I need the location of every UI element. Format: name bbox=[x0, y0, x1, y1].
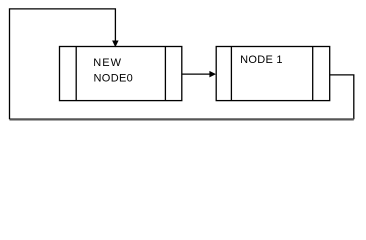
arrowhead into top of NEW NODE0 bbox=[112, 41, 119, 48]
divider: NODE 1 left cell bbox=[230, 47, 232, 101]
node box NODE 1 (outer rect) bbox=[216, 47, 330, 101]
divider: NEW NODE0 right cell bbox=[164, 47, 166, 101]
arrowhead into NODE 1 bbox=[209, 71, 216, 78]
svg-text:NEW: NEW bbox=[93, 57, 122, 69]
svg-text:NODE0: NODE0 bbox=[94, 72, 134, 84]
wire: loop from NODE 1 next pointer, right jog then down bbox=[330, 75, 354, 119]
wire: loop left vertical, top horizontal and drop toward NEW NODE0 bbox=[10, 9, 116, 119]
svg-text:NODE 1: NODE 1 bbox=[240, 54, 283, 66]
wire: next pointer from NEW NODE0 to NODE 1 bbox=[182, 73, 211, 75]
node box NEW NODE0 (outer rect) bbox=[60, 47, 182, 101]
wire: loop bottom segment (gray) bbox=[10, 118, 354, 120]
divider: NODE 1 right cell bbox=[312, 47, 314, 101]
divider: NEW NODE0 left cell bbox=[75, 47, 77, 101]
